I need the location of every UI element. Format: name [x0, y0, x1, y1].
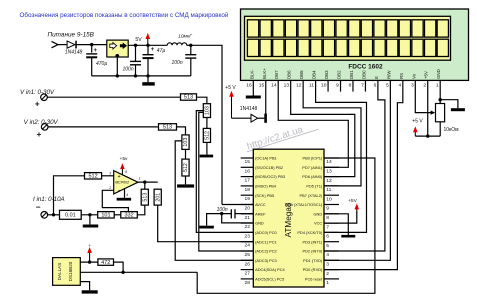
svg-text:103: 103	[205, 106, 211, 115]
svg-text:3: 3	[326, 262, 329, 268]
resistor R2 divider1 upper	[203, 104, 210, 118]
wire Vin2 wire	[48, 126, 159, 128]
ground AREF ground	[199, 226, 214, 229]
svg-text:PD5 (T1): PD5 (T1)	[306, 184, 322, 189]
svg-text:1: 1	[436, 82, 439, 88]
pin 21 stub (left)	[241, 213, 254, 215]
wire opamp V- stem	[124, 189, 126, 198]
junction contrast node	[426, 134, 429, 137]
capacitor C3 47u	[143, 47, 166, 58]
resistor R8 101	[98, 212, 115, 219]
potentiometer R14 10kOm	[436, 104, 460, 134]
pin 7 stub (right)	[324, 222, 339, 224]
svg-text:472: 472	[101, 260, 110, 266]
junction rail-C2 junction	[134, 74, 137, 77]
capacitor C1 470u	[86, 48, 107, 67]
wire E route to PD2 pin4	[324, 80, 385, 251]
wire DS pin2 data wire	[80, 271, 197, 273]
wire regulator output wire 5V	[128, 44, 167, 46]
pin 20 stub (left)	[241, 204, 254, 206]
svg-text:ATMega8: ATMega8	[284, 202, 293, 237]
resistor R4 51k	[159, 124, 177, 131]
wire Vin1 to divider column	[197, 97, 207, 104]
capacitor C4 100n	[172, 55, 197, 66]
pin 8 stub (right)	[324, 213, 339, 215]
pin 5 stub (right)	[324, 241, 339, 243]
resistor R11 feedback 513	[141, 189, 148, 205]
junction node after L1	[189, 44, 192, 47]
svg-text:(SS/OC1B) PB2: (SS/OC1B) PB2	[255, 165, 283, 170]
wire power input to diode	[60, 44, 67, 46]
wire AREF cap to ground line	[207, 214, 232, 226]
wire shunt ground stem	[89, 215, 91, 225]
junction DS pullup node	[88, 260, 91, 263]
svg-text:15: 15	[245, 159, 251, 165]
connector X2 V in1	[41, 94, 48, 101]
svg-text:11: 11	[326, 187, 331, 193]
pin 1 stub (right)	[324, 278, 339, 280]
svg-text:101: 101	[101, 213, 110, 219]
wire AREF wire	[235, 213, 253, 215]
svg-text:MCP602: MCP602	[115, 181, 129, 185]
svg-text:18: 18	[245, 187, 251, 193]
svg-text:13: 13	[284, 82, 290, 88]
svg-text:−: −	[36, 202, 41, 212]
pin 17 stub (left)	[241, 176, 254, 178]
svg-text:PB7 (XTAL2): PB7 (XTAL2)	[300, 193, 323, 198]
svg-text:PD1 (TXD): PD1 (TXD)	[303, 258, 323, 263]
capacitor C5 100n (AREF)	[217, 207, 235, 218]
pin 2 stub (right)	[324, 269, 339, 271]
+5V power flag backlight 5V	[225, 85, 236, 118]
pin 18 stub (left)	[241, 185, 254, 187]
wire in- network	[102, 190, 128, 211]
wire regulator ground lead	[116, 57, 118, 76]
resistor R6 divider2 lower	[182, 159, 189, 176]
wire R101 to R332	[114, 214, 121, 216]
svg-text:1: 1	[326, 280, 329, 286]
wire LCD pin16 to ground	[252, 80, 254, 95]
wire DB6 route to PD6 pin12	[291, 80, 355, 176]
wire pot top lead	[439, 100, 441, 104]
svg-text:DS18B20: DS18B20	[68, 261, 73, 281]
svg-text:+5v: +5v	[119, 156, 128, 162]
svg-text:PB0 (ICP1): PB0 (ICP1)	[303, 156, 323, 161]
svg-text:19: 19	[245, 196, 251, 202]
+5V power flag 5V out	[135, 33, 150, 45]
connector X1 power input	[52, 41, 61, 47]
svg-text:10мкГ: 10мкГ	[178, 34, 192, 40]
svg-text:V in1: 0-30V: V in1: 0-30V	[20, 89, 55, 96]
svg-text:R/W: R/W	[386, 70, 391, 79]
pin 15 stub (left)	[241, 157, 254, 159]
pin 3 stub (right)	[324, 259, 339, 261]
svg-text:23: 23	[245, 233, 251, 239]
svg-text:1N4148: 1N4148	[240, 106, 258, 112]
wire diode to regulator	[76, 44, 107, 46]
svg-text:PD4 (XCK/T0): PD4 (XCK/T0)	[297, 230, 323, 235]
wire C2 bottom lead	[135, 65, 137, 76]
svg-text:(SCK) PB5: (SCK) PB5	[255, 193, 274, 198]
junction I sense node	[52, 213, 55, 216]
svg-text:14: 14	[271, 82, 277, 88]
resistor R1 51k	[181, 94, 197, 101]
svg-text:11: 11	[309, 82, 314, 88]
+5V power flag contrast 5V	[412, 118, 423, 136]
connector X4 I in1	[41, 212, 48, 219]
resistor R3 divider1 lower	[203, 128, 210, 142]
svg-text:+: +	[151, 47, 155, 53]
wire DS data to chip pin14	[197, 158, 375, 293]
svg-text:16: 16	[246, 82, 252, 88]
svg-text:512: 512	[183, 163, 189, 172]
LCD module HG1 FDCC 1602	[241, 9, 469, 80]
svg-text:22: 22	[245, 224, 251, 230]
ground power ground	[142, 82, 155, 85]
MCU U1 ATMega8	[253, 149, 324, 287]
wire inductor out wire	[187, 44, 191, 46]
svg-text:15: 15	[259, 82, 265, 88]
wire R201 to ADC1 (pin24)	[158, 205, 254, 242]
wire divider1 to ground	[206, 142, 208, 154]
svg-text:47µ: 47µ	[157, 48, 166, 54]
junction shunt out node	[88, 213, 91, 216]
LCD display area	[245, 16, 451, 60]
pin 25 stub (left)	[241, 250, 254, 252]
svg-text:10кОм: 10кОм	[444, 127, 460, 133]
svg-text:(MOSI/OC2) PB3: (MOSI/OC2) PB3	[255, 174, 285, 179]
wire C3 top lead	[147, 45, 149, 54]
wire LCD pin15 down	[265, 80, 267, 118]
svg-text:PD6 (AIN0): PD6 (AIN0)	[302, 174, 323, 179]
wire pot bottom lead	[439, 122, 441, 136]
svg-text:E: E	[374, 76, 379, 79]
svg-text:(ADC3) PC3: (ADC3) PC3	[255, 258, 277, 263]
svg-text:4: 4	[398, 82, 401, 88]
svg-text:8: 8	[326, 215, 329, 221]
wire chip GND pin22 wire	[222, 214, 254, 223]
wire C2 top lead	[135, 45, 137, 61]
junction DS data node	[121, 271, 124, 274]
pin 9 stub (right)	[324, 204, 339, 206]
wire ground stem power	[147, 76, 149, 83]
svg-text:+5V: +5V	[348, 198, 358, 204]
wire DB4 route to PD4 pin6	[316, 80, 367, 232]
svg-text:0.01: 0.01	[65, 213, 76, 219]
pin 28 stub (left)	[241, 278, 254, 280]
svg-text:DB3: DB3	[324, 70, 329, 79]
svg-text:(OC1A) PB1: (OC1A) PB1	[255, 156, 277, 161]
svg-text:5: 5	[326, 243, 329, 249]
pin 16 stub (left)	[241, 166, 254, 168]
resistor R13 472	[98, 259, 114, 266]
wire shunt to R101	[81, 214, 98, 216]
svg-text:2: 2	[108, 186, 111, 190]
wire C1 top lead	[91, 45, 93, 53]
svg-text:100n: 100n	[123, 67, 134, 73]
svg-text:+: +	[94, 48, 98, 54]
svg-text:13: 13	[326, 169, 332, 175]
svg-text:(ADC0) PC0: (ADC0) PC0	[255, 230, 277, 235]
svg-text:BLK+: BLK+	[262, 68, 267, 79]
wire diode cathode to pin15	[258, 117, 266, 119]
pin 24 stub (left)	[241, 241, 254, 243]
wire chip GND pin8 wire	[324, 214, 348, 235]
wire Vo wire to pot wiper	[415, 80, 432, 112]
diode VD1 1N4148	[65, 41, 83, 56]
svg-text:24: 24	[245, 243, 251, 249]
svg-text:512: 512	[205, 131, 211, 140]
svg-text:6: 6	[374, 82, 377, 88]
svg-text:8: 8	[349, 82, 352, 88]
pot wiper arrow	[431, 111, 436, 115]
wire LCD DB0 stub	[364, 80, 366, 91]
wire output to R513fb	[144, 182, 146, 189]
wire DS pin3 gnd	[80, 282, 89, 291]
wire divider1 mid	[206, 118, 208, 129]
svg-text:+: +	[118, 174, 121, 180]
pin 11 stub (right)	[324, 185, 339, 187]
diode VD2 1N4148 (backlight)	[240, 106, 267, 123]
svg-text:17: 17	[245, 178, 251, 184]
+5V power flag DS 5V	[87, 243, 92, 262]
LCD character cells 16x2	[247, 20, 448, 57]
svg-text:512: 512	[88, 174, 97, 180]
wire C4 bottom lead	[190, 58, 192, 76]
svg-text:+5 V: +5 V	[225, 85, 236, 91]
svg-text:20: 20	[245, 206, 251, 212]
wire C3 bottom lead	[147, 58, 149, 76]
svg-text:12: 12	[326, 178, 332, 184]
wire R332 to feedback node	[137, 205, 145, 215]
svg-text:16: 16	[245, 168, 251, 174]
svg-text:DB2: DB2	[337, 70, 342, 79]
svg-text:DALLAS: DALLAS	[57, 263, 62, 281]
svg-text:PD7 (AIN1): PD7 (AIN1)	[302, 165, 323, 170]
junction rail-C3 junction	[146, 74, 149, 77]
svg-text:470µ: 470µ	[96, 61, 107, 67]
svg-text:ADC4(SDA) PC4: ADC4(SDA) PC4	[255, 267, 285, 272]
pin 23 stub (left)	[241, 231, 254, 233]
svg-text:7: 7	[361, 82, 364, 88]
svg-text:2: 2	[326, 271, 329, 277]
pin 10 stub (right)	[324, 194, 339, 196]
resistor R10 512	[85, 173, 102, 180]
svg-text:513: 513	[163, 125, 172, 131]
svg-text:100n: 100n	[172, 60, 183, 66]
svg-text:AVCC: AVCC	[255, 202, 266, 207]
svg-text:10: 10	[321, 82, 327, 88]
wire R512 to opamp in+	[102, 175, 114, 177]
wire LCD pin1 to ground	[440, 80, 458, 108]
wire flag to diode anode	[232, 117, 251, 119]
junction power node A	[90, 43, 93, 46]
wire divider2 mid	[185, 149, 187, 159]
svg-text:+: +	[88, 243, 91, 248]
ground divider2 ground	[177, 184, 194, 187]
svg-text:3: 3	[411, 82, 414, 88]
svg-text:12: 12	[296, 82, 302, 88]
svg-text:Vo: Vo	[411, 73, 416, 79]
svg-text:8: 8	[125, 170, 127, 174]
svg-text:(ADC1) PC1: (ADC1) PC1	[255, 239, 277, 244]
connector X3 V in2	[41, 124, 48, 131]
wire 5V line right and down to AVCC	[191, 45, 222, 204]
svg-text:3: 3	[109, 171, 111, 175]
svg-text:+: +	[35, 99, 40, 109]
svg-text:+5 V: +5 V	[412, 118, 423, 124]
junction rail-regulator junction	[116, 74, 119, 77]
pin 22 stub (left)	[241, 222, 254, 224]
svg-text:AREF: AREF	[255, 211, 266, 216]
wire R/W route to PD1 pin3	[324, 80, 390, 260]
pin 4 stub (right)	[324, 250, 339, 252]
wire DS pin1 VDD wire	[80, 261, 98, 263]
wire LCD DB1 stub	[352, 80, 354, 91]
svg-text:V in2: 0-30V: V in2: 0-30V	[24, 119, 59, 126]
svg-text:4: 4	[326, 252, 329, 258]
svg-text:21: 21	[245, 215, 251, 221]
svg-text:+: +	[37, 129, 42, 139]
pin 19 stub (left)	[241, 194, 254, 196]
wire contrast bottom rail	[415, 135, 440, 137]
ground LCD backlight- ground	[246, 96, 261, 99]
+5V power flag VCC 5V	[348, 198, 359, 211]
wire LCD DB2 stub	[340, 80, 342, 91]
wire opamp output	[138, 181, 158, 183]
wire power ground rail	[92, 75, 191, 77]
wire divider2 to ground	[185, 176, 187, 184]
resistor R7 shunt 0.01	[60, 210, 82, 219]
svg-text:DB0: DB0	[361, 70, 366, 79]
svg-text:513: 513	[184, 95, 193, 101]
svg-text:25: 25	[245, 252, 251, 258]
svg-text:332: 332	[124, 213, 133, 219]
svg-text:PD0 (RXD): PD0 (RXD)	[303, 267, 323, 272]
svg-text:VCC: VCC	[314, 221, 322, 226]
ground DS ground	[82, 290, 98, 293]
svg-text:(ADC2) PC2: (ADC2) PC2	[255, 249, 277, 254]
svg-text:PB6 (XTAL1/TOSC1): PB6 (XTAL1/TOSC1)	[286, 202, 323, 207]
wire DB7 route to PD7 pin13	[278, 80, 348, 167]
svg-text:DB7: DB7	[274, 70, 279, 79]
svg-text:4: 4	[126, 193, 128, 197]
wire Vin1 wire	[47, 96, 180, 98]
svg-text:PC6 reset: PC6 reset	[305, 277, 323, 282]
wire VCC wire	[324, 211, 357, 223]
junction pot top node	[439, 98, 442, 101]
svg-text:DB5: DB5	[299, 70, 304, 79]
svg-text:Питание 9-15В: Питание 9-15В	[48, 31, 95, 38]
inductor L1 10мкГ	[167, 34, 192, 46]
svg-text:FDCC 1602: FDCC 1602	[348, 63, 383, 70]
voltage regulator U2 (DC-DC module)	[107, 40, 128, 58]
op-amp U3 MCP602	[108, 170, 141, 197]
svg-text:DB1: DB1	[349, 70, 354, 79]
wire Vin2 to divider column	[177, 127, 186, 135]
junction AREF ground node	[220, 212, 223, 215]
wire I sense up to R512	[54, 176, 85, 215]
ground LCD gnd symbol	[451, 108, 465, 111]
+5V power flag opamp 5V	[119, 156, 128, 175]
wire tap2 to ADC3 (pin26)	[175, 141, 253, 260]
svg-text:9: 9	[326, 206, 329, 212]
sensor U4 DS18B20	[53, 258, 81, 286]
wire LCD +5V pin2 down	[427, 80, 429, 136]
ground shunt ground	[83, 225, 99, 228]
watermark	[246, 124, 319, 152]
svg-text:ADC5(SCL) PC5: ADC5(SCL) PC5	[255, 277, 284, 282]
svg-text:5: 5	[386, 82, 389, 88]
svg-text:−: −	[118, 188, 121, 194]
junction 5V node C2	[134, 44, 137, 47]
resistor R12 201	[154, 189, 161, 205]
wire RS route to PD0 pin2	[324, 80, 403, 269]
wire C1 bottom lead	[91, 58, 93, 76]
svg-text:DB4: DB4	[312, 70, 317, 79]
junction 5V node C3	[146, 44, 149, 47]
wire Iin wire to shunt	[48, 214, 60, 216]
wire DB5 route to PD5 pin11	[303, 80, 361, 185]
svg-text:DB6: DB6	[287, 70, 292, 79]
pin 14 stub (right)	[324, 157, 339, 159]
pin 12 stub (right)	[324, 176, 339, 178]
wire LCD DB3 stub	[327, 80, 329, 91]
svg-text:GND: GND	[314, 211, 323, 216]
svg-text:(MISO) PB4: (MISO) PB4	[255, 184, 277, 189]
junction opamp output node	[143, 180, 146, 183]
ground divider1 ground	[200, 155, 214, 158]
svg-text:RS: RS	[399, 73, 404, 79]
svg-text:201: 201	[155, 193, 161, 202]
svg-text:PD3 (INT1): PD3 (INT1)	[303, 239, 323, 244]
svg-text:9: 9	[336, 82, 339, 88]
svg-text:10: 10	[326, 196, 332, 202]
ground opamp ground	[117, 198, 131, 201]
wire tap1b to ADC2 (pin25)	[199, 112, 254, 251]
svg-text:GND: GND	[255, 221, 264, 226]
svg-text:28: 28	[245, 280, 251, 286]
svg-text:6: 6	[326, 234, 329, 240]
svg-text:GND: GND	[436, 69, 441, 79]
resistor R5 divider2 upper	[182, 135, 189, 150]
svg-text:103: 103	[183, 138, 189, 147]
resistor R9 332	[121, 212, 138, 219]
svg-text:1: 1	[139, 177, 141, 181]
svg-text:Обозначения резисторов показан: Обозначения резисторов показаны в соотве…	[20, 11, 229, 19]
capacitor C2 100n	[123, 61, 142, 72]
svg-text:2: 2	[423, 82, 426, 88]
svg-text:27: 27	[245, 271, 251, 277]
wire AVCC wire	[222, 204, 253, 206]
svg-text:513: 513	[143, 193, 149, 202]
wire R472 to data	[114, 262, 124, 272]
pin 13 stub (right)	[324, 166, 339, 168]
svg-text:26: 26	[245, 261, 251, 267]
svg-text:7: 7	[326, 224, 329, 230]
wire tap1 to ADC0 (pin23)	[196, 111, 253, 233]
wire C4 top lead	[190, 45, 192, 54]
svg-text:+5V: +5V	[424, 71, 429, 79]
pin 26 stub (left)	[241, 259, 254, 261]
pin 27 stub (left)	[241, 269, 254, 271]
svg-text:5V: 5V	[135, 37, 142, 43]
ground chip ground	[341, 235, 355, 238]
svg-text:1N4148: 1N4148	[65, 50, 83, 56]
svg-text:14: 14	[326, 159, 332, 165]
svg-text:PD2 (INT0): PD2 (INT0)	[303, 249, 323, 254]
pin 6 stub (right)	[324, 231, 339, 233]
